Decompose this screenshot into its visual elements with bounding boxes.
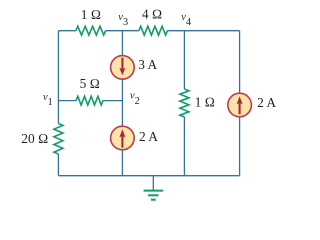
resistor R1 1ohm top zigzag bbox=[76, 26, 106, 35]
wire top-left segment bbox=[58, 30, 75, 32]
resistor R3 20ohm left zigzag bbox=[54, 124, 63, 155]
wire bottom bbox=[58, 175, 239, 177]
wire top middle segment v3 bbox=[106, 30, 139, 32]
svg-text:1 Ω: 1 Ω bbox=[195, 95, 215, 110]
current source I1 3A arrow down bbox=[121, 58, 123, 69]
current source I3 2A arrow up bbox=[239, 103, 241, 114]
ground bar 2 bbox=[148, 194, 159, 196]
wire middle left segment bbox=[58, 100, 76, 102]
wire v3 to v2 vertical bbox=[121, 79, 123, 101]
wire top right segment bbox=[167, 30, 239, 32]
wire right vertical lower bbox=[239, 117, 241, 176]
resistor R4 5ohm middle zigzag bbox=[76, 96, 103, 105]
wire v2 source to bottom bbox=[121, 150, 123, 176]
svg-text:1 Ω: 1 Ω bbox=[81, 7, 101, 22]
ground bar 1 bbox=[144, 190, 163, 192]
wire v2 vertical to source bbox=[121, 101, 123, 127]
ground bar 3 bbox=[151, 199, 156, 201]
svg-text:v3: v3 bbox=[118, 12, 128, 28]
wire v4 vertical upper bbox=[183, 31, 185, 89]
svg-text:2 A: 2 A bbox=[257, 95, 276, 110]
current source I2 2A circle bbox=[111, 126, 135, 150]
resistor R5 1ohm right zigzag bbox=[180, 89, 189, 117]
svg-text:v1: v1 bbox=[43, 92, 53, 108]
wire middle right segment bbox=[103, 100, 123, 102]
svg-text:v4: v4 bbox=[181, 12, 191, 28]
current source I2 2A arrow up bbox=[121, 136, 123, 147]
wire left vertical lower bbox=[57, 154, 59, 176]
svg-text:20 Ω: 20 Ω bbox=[21, 131, 48, 146]
wire v4 vertical lower bbox=[183, 117, 185, 176]
ground stem bbox=[152, 176, 154, 190]
svg-text:3 A: 3 A bbox=[138, 57, 157, 72]
wire right vertical upper bbox=[239, 31, 241, 94]
resistor R2 4ohm top zigzag bbox=[139, 26, 168, 35]
svg-text:2 A: 2 A bbox=[139, 129, 158, 144]
current source I1 3A circle bbox=[111, 56, 135, 80]
svg-text:v2: v2 bbox=[130, 91, 140, 107]
svg-text:4 Ω: 4 Ω bbox=[142, 7, 162, 22]
wire left vertical upper bbox=[57, 31, 59, 124]
current source I3 2A circle bbox=[228, 93, 252, 117]
wire v3 vertical upper bbox=[121, 31, 123, 56]
svg-text:5 Ω: 5 Ω bbox=[80, 76, 100, 91]
